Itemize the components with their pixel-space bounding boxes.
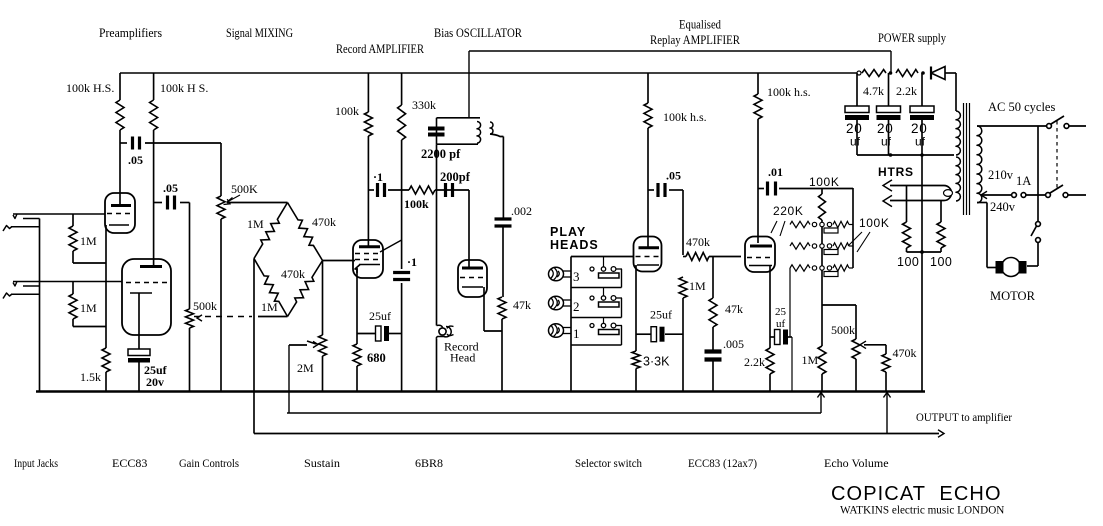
svg-text:2200 pf: 2200 pf [421, 147, 461, 161]
svg-text:100: 100 [897, 255, 919, 269]
svg-text:.002: .002 [511, 204, 532, 218]
svg-text:·1: ·1 [407, 255, 417, 269]
svg-text:Selector switch: Selector switch [575, 456, 642, 470]
svg-text:Preamplifiers: Preamplifiers [99, 26, 162, 40]
svg-text:2: 2 [573, 299, 580, 314]
svg-text:WATKINS electric music LONDON: WATKINS electric music LONDON [840, 505, 1004, 517]
svg-text:1M: 1M [802, 353, 819, 367]
svg-text:1M: 1M [689, 279, 706, 293]
svg-text:uf: uf [776, 318, 786, 330]
svg-text:Signal MIXING: Signal MIXING [226, 26, 293, 40]
svg-text:220K: 220K [773, 204, 803, 218]
svg-text:500k: 500k [831, 323, 855, 337]
svg-text:AC 50 cycles: AC 50 cycles [988, 100, 1055, 114]
svg-text:200pf: 200pf [440, 170, 471, 184]
svg-text:uf: uf [850, 135, 861, 149]
svg-text:MOTOR: MOTOR [990, 289, 1036, 303]
svg-text:1M: 1M [261, 300, 278, 314]
svg-text:.005: .005 [723, 337, 744, 351]
svg-text:100k: 100k [404, 197, 429, 211]
svg-text:20v: 20v [146, 375, 164, 389]
svg-text:500K: 500K [231, 182, 258, 196]
svg-text:1: 1 [573, 326, 580, 341]
svg-text:100K: 100K [859, 216, 889, 230]
svg-text:100k H.S.: 100k H.S. [66, 81, 114, 95]
svg-text:100k: 100k [335, 104, 359, 118]
svg-text:3: 3 [573, 269, 580, 284]
svg-text:500k: 500k [193, 299, 217, 313]
svg-text:25: 25 [775, 306, 787, 318]
svg-text:470k: 470k [686, 235, 710, 249]
svg-text:ECC83 (12ax7): ECC83 (12ax7) [688, 456, 757, 470]
svg-text:100k h.s.: 100k h.s. [663, 110, 707, 124]
svg-text:3·3K: 3·3K [643, 355, 670, 369]
svg-text:1M: 1M [80, 301, 97, 315]
svg-text:470k: 470k [281, 267, 305, 281]
svg-text:Bias OSCILLATOR: Bias OSCILLATOR [434, 26, 523, 40]
svg-text:1M: 1M [80, 234, 97, 248]
svg-text:4.7k: 4.7k [863, 84, 884, 98]
svg-text:Equalised: Equalised [679, 18, 722, 32]
svg-text:.05: .05 [128, 153, 143, 167]
svg-text:470k: 470k [312, 215, 336, 229]
svg-text:100: 100 [930, 255, 952, 269]
svg-text:470k: 470k [893, 346, 917, 360]
svg-text:47k: 47k [513, 298, 531, 312]
svg-text:Sustain: Sustain [304, 456, 340, 470]
svg-text:210v: 210v [988, 168, 1014, 182]
svg-text:1A: 1A [1016, 174, 1031, 188]
svg-text:.05: .05 [163, 181, 178, 195]
svg-text:6BR8: 6BR8 [415, 456, 443, 470]
svg-text:ECC83: ECC83 [112, 456, 147, 470]
svg-text:uf: uf [915, 135, 926, 149]
svg-text:.01: .01 [768, 165, 783, 179]
svg-text:47k: 47k [725, 302, 743, 316]
svg-text:25uf: 25uf [369, 309, 391, 323]
svg-text:uf: uf [881, 135, 892, 149]
svg-text:100k H S.: 100k H S. [160, 81, 208, 95]
svg-text:330k: 330k [412, 98, 436, 112]
svg-text:1.5k: 1.5k [80, 370, 101, 384]
svg-text:100K: 100K [809, 175, 839, 189]
svg-text:Record AMPLIFIER: Record AMPLIFIER [336, 42, 425, 56]
svg-text:.05: .05 [666, 169, 681, 183]
svg-text:2.2k: 2.2k [744, 355, 765, 369]
svg-text:Echo Volume: Echo Volume [824, 456, 889, 470]
svg-text:·1: ·1 [373, 170, 383, 184]
svg-text:680: 680 [367, 351, 386, 365]
svg-text:100k h.s.: 100k h.s. [767, 85, 811, 99]
svg-text:Head: Head [450, 351, 475, 365]
svg-text:OUTPUT to amplifier: OUTPUT to amplifier [916, 410, 1012, 424]
svg-text:2.2k: 2.2k [896, 84, 917, 98]
svg-text:Replay AMPLIFIER: Replay AMPLIFIER [650, 33, 741, 47]
svg-text:HEADS: HEADS [550, 238, 599, 252]
svg-text:2M: 2M [297, 361, 314, 375]
svg-text:25uf: 25uf [650, 308, 672, 322]
svg-text:Gain Controls: Gain Controls [179, 456, 239, 470]
svg-text:1M: 1M [247, 217, 264, 231]
svg-text:PLAY: PLAY [550, 225, 586, 239]
svg-text:HTRS: HTRS [878, 165, 914, 179]
svg-text:COPICAT ECHO: COPICAT ECHO [831, 483, 1002, 505]
svg-text:Input Jacks: Input Jacks [14, 456, 58, 470]
svg-text:240v: 240v [990, 200, 1016, 214]
svg-text:POWER supply: POWER supply [878, 31, 947, 45]
